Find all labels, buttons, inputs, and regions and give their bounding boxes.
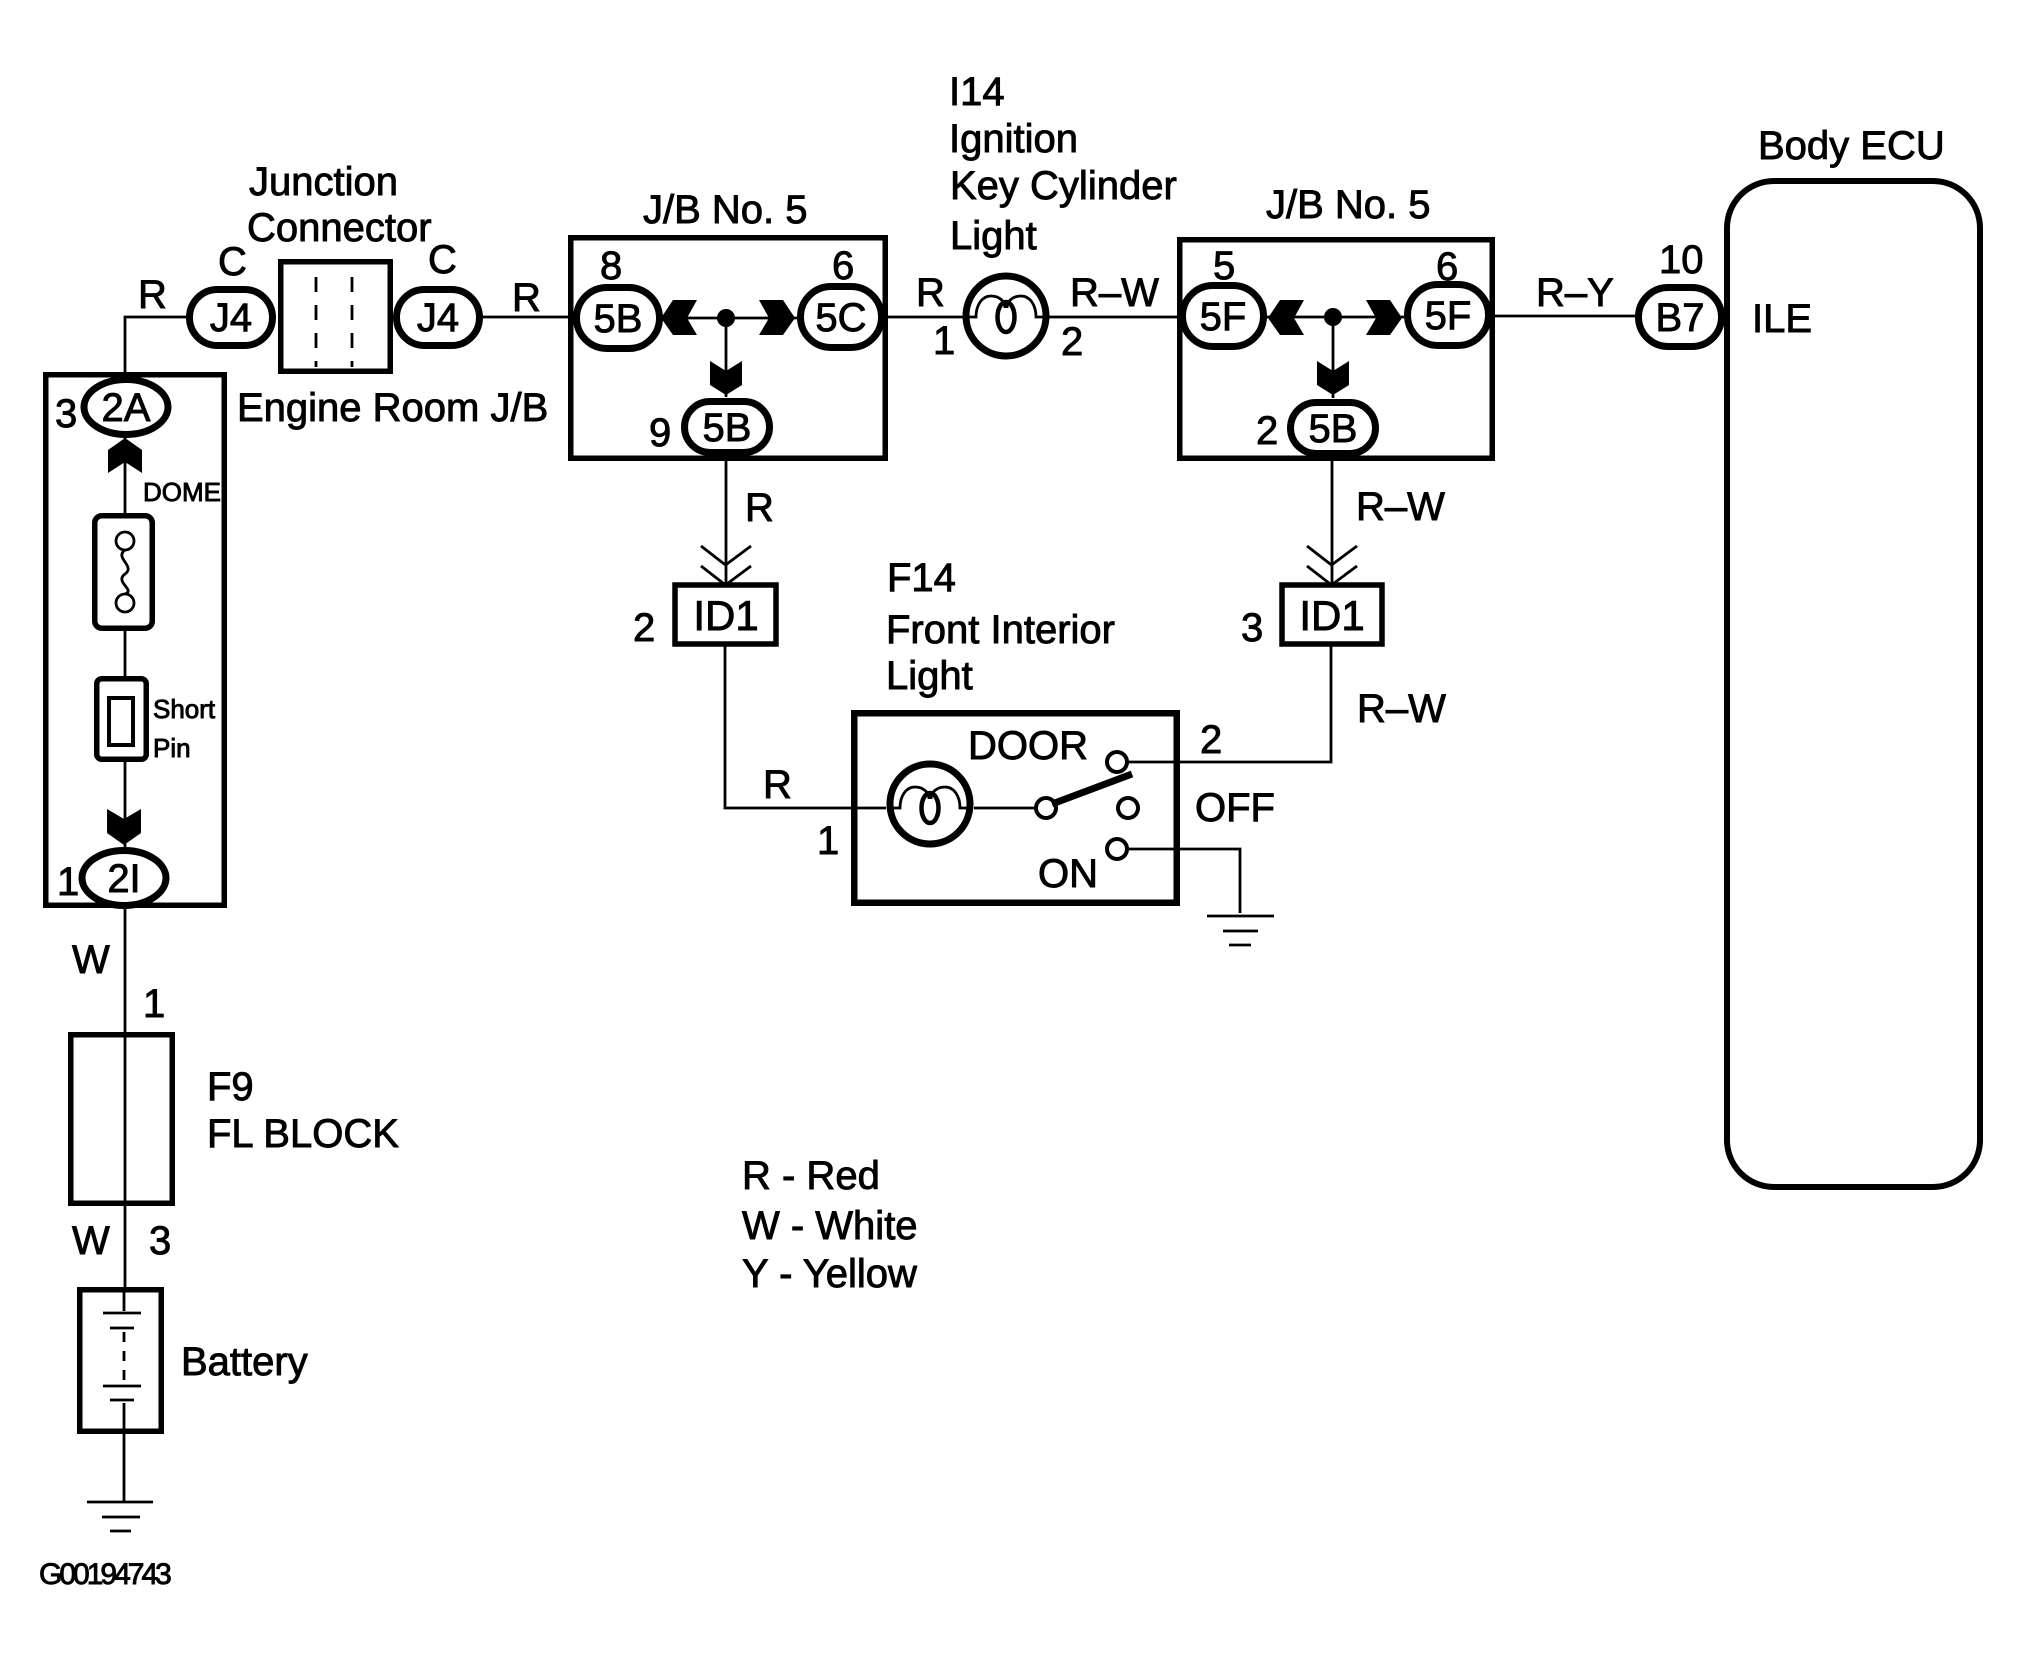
- svg-text:OFF: OFF: [1195, 786, 1275, 830]
- junction node dot: [1324, 308, 1342, 326]
- svg-text:B7: B7: [1656, 296, 1705, 340]
- internal wire down to 5B pin 9: [725, 318, 728, 397]
- svg-text:5B: 5B: [1309, 407, 1358, 451]
- wire R from ID1 to front interior light: [725, 646, 886, 808]
- arrow left to 5B: [661, 300, 697, 335]
- svg-text:J4: J4: [417, 296, 459, 340]
- connector 2A pin 3: [84, 380, 168, 435]
- svg-text:R: R: [916, 271, 945, 315]
- svg-text:Short: Short: [153, 694, 216, 724]
- arrow down to 5B pin 9: [710, 361, 742, 395]
- switch lever to DOOR: [1052, 774, 1132, 804]
- svg-text:DOOR: DOOR: [968, 724, 1088, 768]
- svg-text:R–Y: R–Y: [1536, 271, 1614, 315]
- connector 5B pin 9: [685, 402, 770, 453]
- svg-text:ILE: ILE: [1752, 297, 1812, 341]
- svg-text:ID1: ID1: [693, 592, 758, 639]
- svg-text:ON: ON: [1038, 852, 1098, 896]
- switch contact DOOR: [1107, 752, 1127, 772]
- svg-text:1: 1: [143, 982, 165, 1026]
- svg-text:W - White: W - White: [742, 1204, 918, 1248]
- svg-text:W: W: [72, 1219, 110, 1263]
- junction node dot: [717, 309, 735, 327]
- svg-text:5F: 5F: [1200, 295, 1247, 339]
- wire from ON contact to ground: [1127, 849, 1240, 913]
- svg-text:R: R: [138, 273, 167, 317]
- svg-text:Pin: Pin: [153, 733, 191, 763]
- svg-text:Key Cylinder: Key Cylinder: [950, 164, 1177, 208]
- svg-text:F9: F9: [207, 1065, 254, 1109]
- svg-text:R–W: R–W: [1356, 485, 1445, 529]
- splice arrows above ID1 right: [1307, 546, 1357, 585]
- switch common contact: [1036, 798, 1056, 818]
- svg-text:G00194743: G00194743: [39, 1558, 171, 1591]
- svg-text:1: 1: [817, 819, 839, 863]
- junction block No.5 box first: [571, 238, 886, 459]
- svg-text:R–W: R–W: [1357, 687, 1446, 731]
- junction block No.5 box second: [1180, 240, 1493, 459]
- svg-text:2A: 2A: [102, 386, 151, 430]
- svg-text:R: R: [512, 276, 541, 320]
- svg-text:Ignition: Ignition: [949, 117, 1078, 161]
- svg-text:J/B No. 5: J/B No. 5: [1266, 183, 1431, 227]
- svg-text:Y - Yellow: Y - Yellow: [742, 1252, 917, 1296]
- svg-text:Engine Room J/B: Engine Room J/B: [237, 386, 548, 430]
- connector 2I pin 1: [82, 851, 166, 906]
- arrow down to 5B pin 2: [1317, 361, 1349, 395]
- battery: [80, 1287, 162, 1434]
- svg-text:C: C: [428, 238, 457, 282]
- arrow down to 2I: [107, 809, 141, 845]
- svg-text:3: 3: [149, 1219, 171, 1263]
- svg-text:FL BLOCK: FL BLOCK: [207, 1112, 399, 1156]
- svg-text:Body ECU: Body ECU: [1758, 124, 1945, 168]
- wire from short pin to 2I: [124, 762, 127, 849]
- arrow up to 2A: [108, 438, 142, 473]
- svg-text:3: 3: [1241, 606, 1263, 650]
- fusible link block F9: [71, 1032, 173, 1206]
- svg-text:5B: 5B: [703, 406, 752, 450]
- svg-text:F14: F14: [887, 556, 956, 600]
- svg-text:Connector: Connector: [247, 206, 432, 250]
- svg-text:Light: Light: [886, 654, 973, 698]
- arrow right to 5F: [1366, 300, 1402, 335]
- svg-text:J/B No. 5: J/B No. 5: [643, 188, 808, 232]
- svg-text:W: W: [72, 938, 110, 982]
- svg-text:I14: I14: [949, 70, 1005, 114]
- svg-text:1: 1: [933, 319, 955, 363]
- svg-text:DOME: DOME: [143, 477, 221, 507]
- junction connector block: [281, 262, 391, 372]
- connector 5F pin 6: [1408, 285, 1489, 346]
- svg-text:3: 3: [55, 392, 77, 436]
- svg-text:8: 8: [600, 244, 622, 288]
- connector 5F pin 5: [1183, 286, 1264, 347]
- dome switch: [95, 516, 153, 629]
- svg-text:1: 1: [57, 860, 79, 904]
- connector J4 right: [397, 290, 480, 346]
- internal wire between 5F and 5F: [1267, 316, 1404, 319]
- wire R-Y from 5F pin 6 to body ECU B7: [1492, 315, 1636, 318]
- wire R-W from 5B pin 2 down to ID1: [1331, 455, 1334, 585]
- svg-text:Light: Light: [950, 214, 1037, 258]
- svg-text:5B: 5B: [594, 297, 643, 341]
- wire from 2A to dome switch: [124, 435, 127, 513]
- connector 5B pin 8: [577, 288, 660, 349]
- wire R from dome fuse block 2A up to junction connector J4: [125, 317, 188, 378]
- svg-text:ID1: ID1: [1299, 592, 1364, 639]
- svg-text:R: R: [745, 486, 774, 530]
- svg-text:J4: J4: [210, 296, 252, 340]
- svg-text:10: 10: [1659, 238, 1704, 282]
- dome fuse block box (engine room J/B): [46, 375, 225, 906]
- splice arrows above ID1 left: [701, 546, 751, 585]
- svg-text:Battery: Battery: [181, 1340, 308, 1384]
- wire battery to ground: [123, 1434, 126, 1502]
- connector B7 pin 10: [1639, 288, 1722, 347]
- connector ID1 pin 2: [675, 585, 776, 644]
- wire from dome switch to short pin: [124, 631, 127, 676]
- svg-text:6: 6: [832, 244, 854, 288]
- internal wire down to 5B pin 2: [1332, 317, 1335, 398]
- lamp front interior light: [890, 764, 970, 844]
- svg-text:Junction: Junction: [249, 160, 398, 204]
- switch contact OFF: [1118, 798, 1138, 818]
- wire R-W from lamp to J/B No.5 second: [1048, 316, 1180, 319]
- wire R from 5B pin 9 down to ID1: [725, 454, 728, 585]
- front interior light F14 box: [854, 713, 1177, 903]
- internal wire between 5B and 5C: [663, 317, 797, 320]
- body ECU box: [1727, 181, 1980, 1187]
- svg-text:5C: 5C: [815, 296, 866, 340]
- connector J4 left: [190, 290, 273, 346]
- switch contact ON: [1107, 839, 1127, 859]
- wire W from FL block to battery: [124, 1206, 127, 1287]
- wire R-W from ID1 to door switch: [1128, 646, 1331, 762]
- svg-text:R - Red: R - Red: [742, 1154, 880, 1198]
- wire W from 2I to FL block: [124, 907, 127, 1032]
- svg-text:2: 2: [1061, 320, 1083, 364]
- connector 5C pin 6: [801, 287, 882, 348]
- short pin: [97, 679, 147, 760]
- svg-text:Front Interior: Front Interior: [886, 608, 1115, 652]
- svg-text:R–W: R–W: [1070, 271, 1159, 315]
- ground of door switch: [1207, 916, 1274, 945]
- svg-text:2: 2: [1200, 718, 1222, 762]
- lamp I14 ignition key cylinder light: [966, 276, 1046, 356]
- svg-text:2: 2: [633, 606, 655, 650]
- svg-text:R: R: [763, 763, 792, 807]
- arrow left to 5F: [1268, 300, 1304, 335]
- svg-text:5F: 5F: [1425, 294, 1472, 338]
- svg-text:C: C: [218, 240, 247, 284]
- svg-text:5: 5: [1213, 244, 1235, 288]
- svg-text:2I: 2I: [107, 857, 140, 901]
- arrow right to 5C: [759, 300, 795, 335]
- wire R from J/B No.5 to lamp: [885, 316, 964, 319]
- wire R from J4 to J/B No.5: [483, 316, 574, 319]
- svg-text:2: 2: [1256, 409, 1278, 453]
- wire lamp to switch common: [974, 807, 1036, 810]
- ground battery: [87, 1502, 153, 1531]
- connector 5B pin 2: [1291, 403, 1376, 454]
- svg-text:9: 9: [649, 411, 671, 455]
- connector ID1 pin 3: [1282, 585, 1382, 644]
